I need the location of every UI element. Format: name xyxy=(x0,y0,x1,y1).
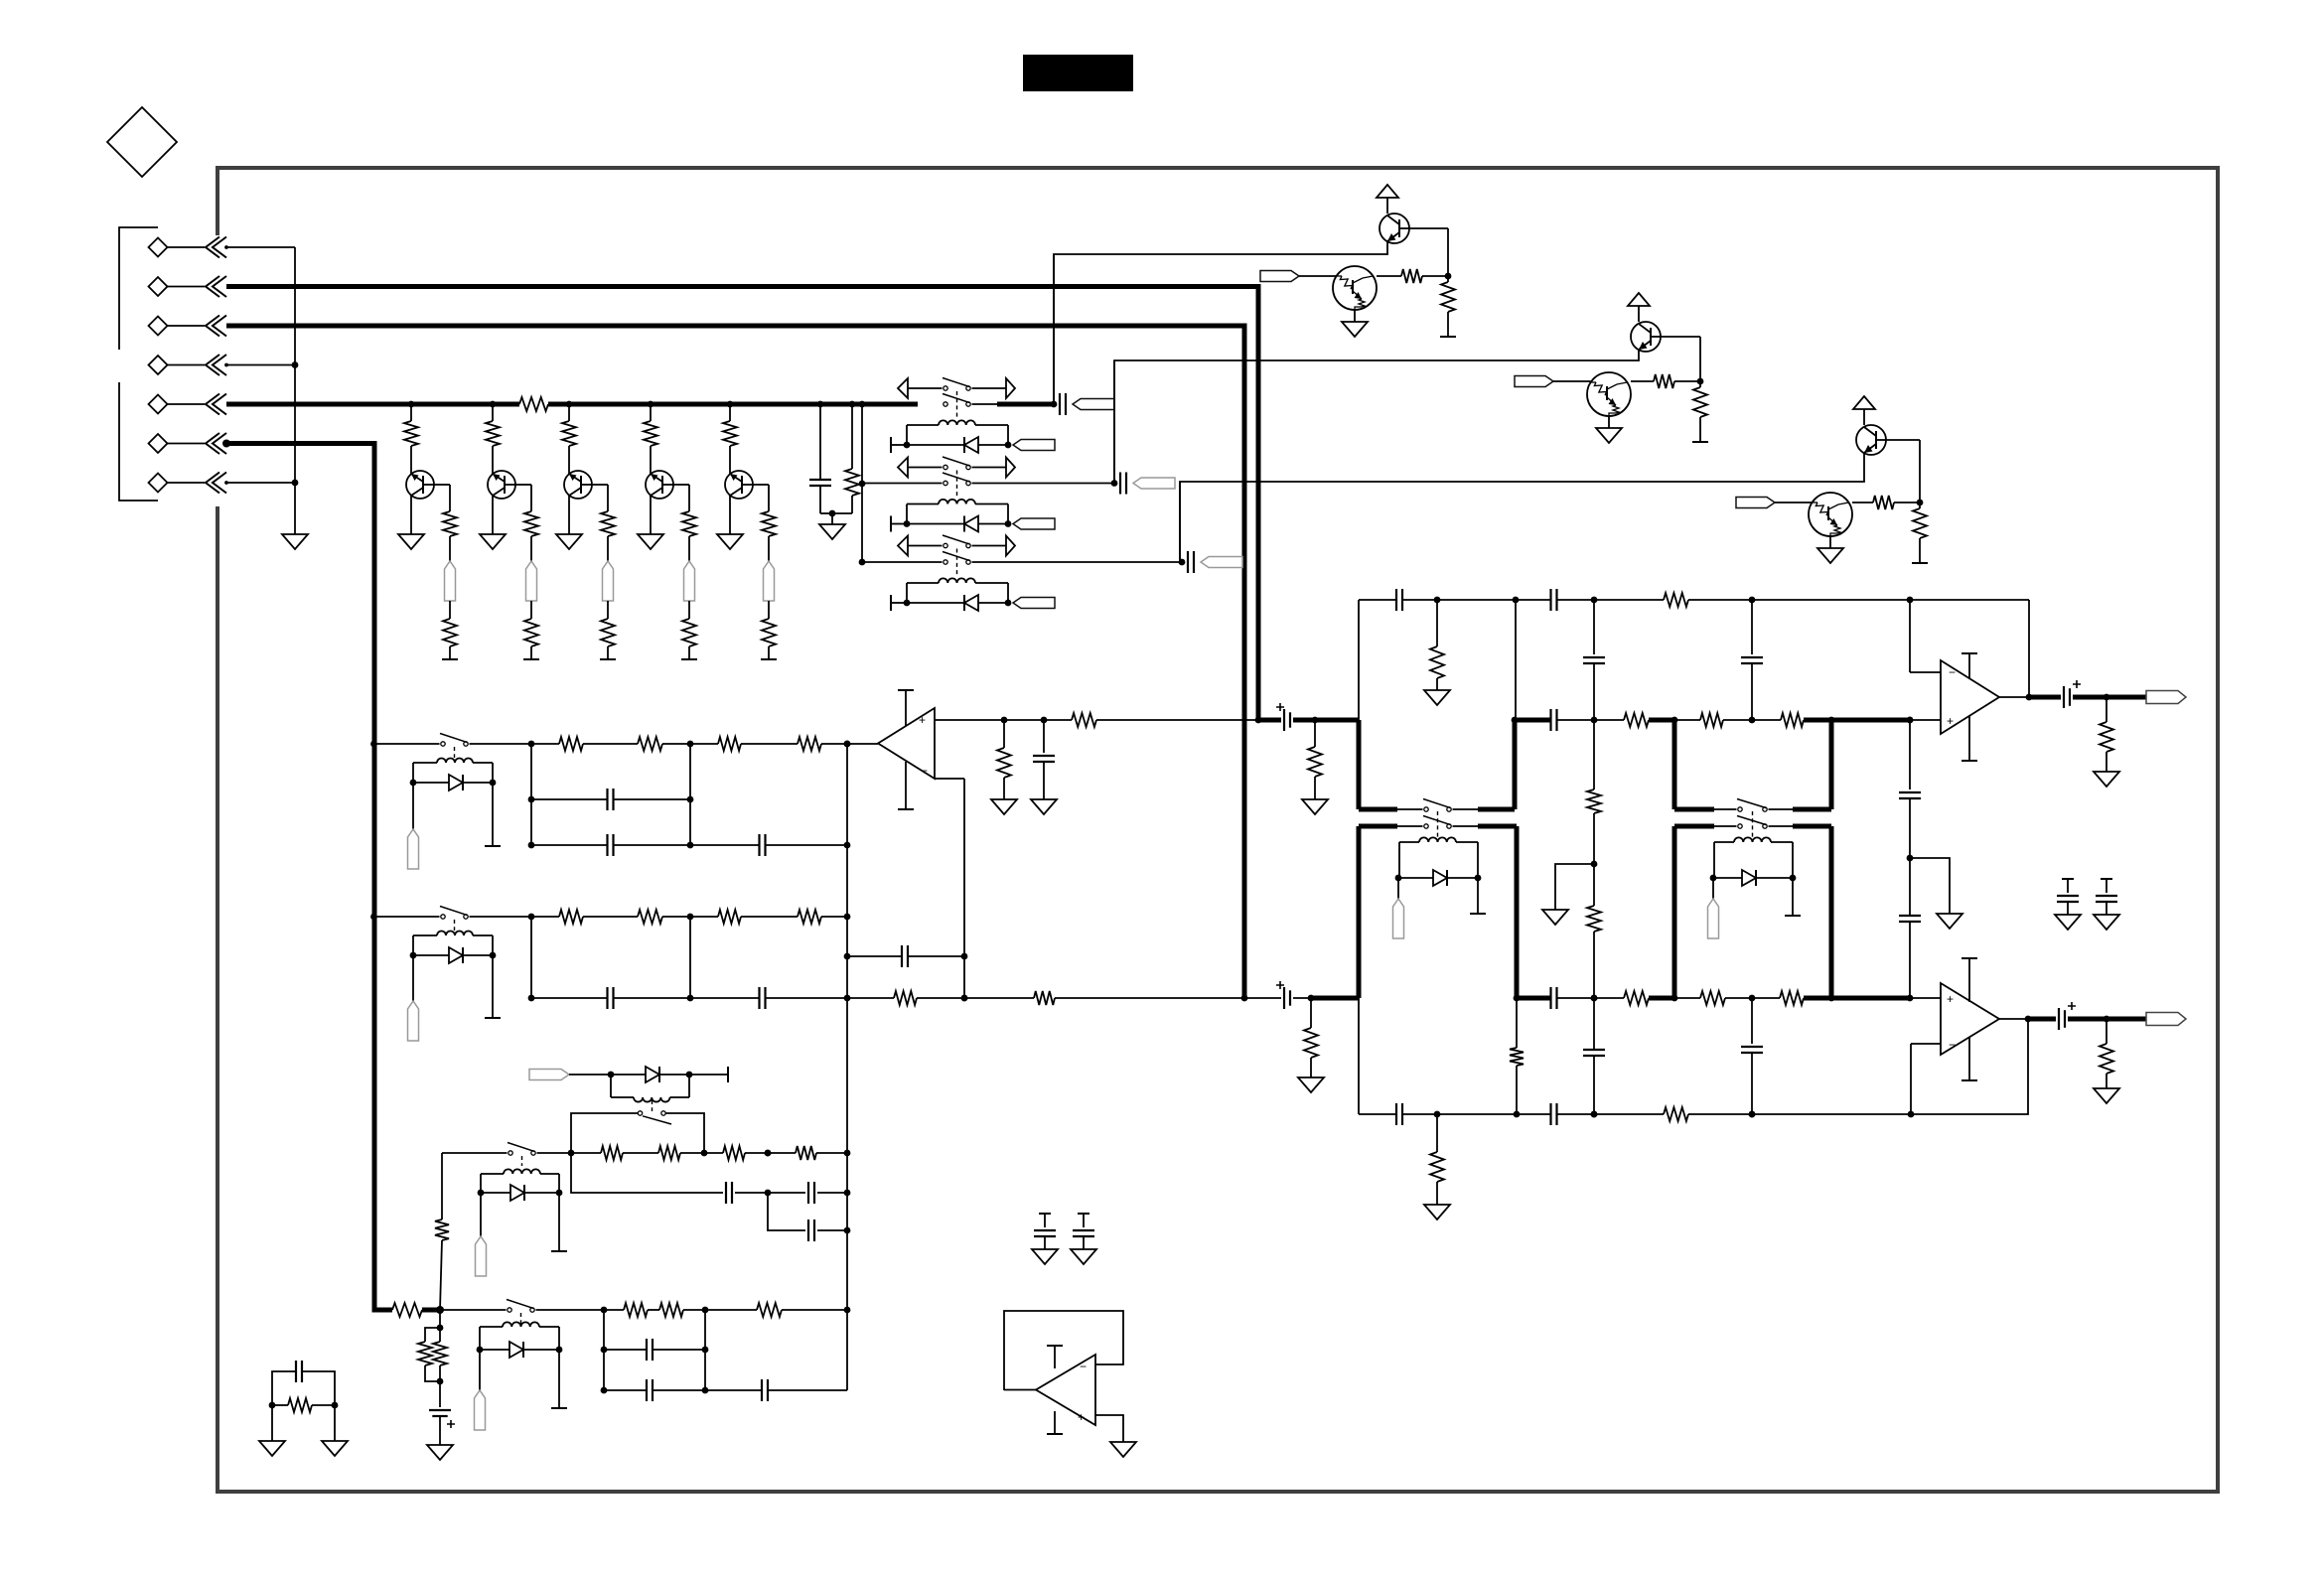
wire v1923 b xyxy=(1909,720,1911,789)
bus row2h (thick) xyxy=(1831,996,1910,1001)
transistor Q8 (PNP) xyxy=(1856,425,1886,455)
cap CL2 xyxy=(807,1182,809,1204)
bus pin2 (thick) xyxy=(226,287,1258,721)
cap C02 xyxy=(1583,656,1605,658)
switch link SW6 xyxy=(1437,811,1439,837)
wire row2c xyxy=(1557,997,1624,999)
bus stub6 (thick) xyxy=(1793,807,1831,812)
cap CL6 rail xyxy=(705,1389,762,1391)
wire U2 - input xyxy=(935,778,964,780)
transistor Q10 (digital) xyxy=(1587,372,1631,416)
ground GND-U5 xyxy=(1110,1442,1136,1457)
terminal T4 xyxy=(681,658,697,660)
wire v1923 e xyxy=(1909,922,1911,998)
wire flag-base cell3 xyxy=(1775,502,1813,503)
net flag NG3 xyxy=(1201,557,1242,568)
ground GND-G4 xyxy=(2094,915,2119,930)
switch SW6a xyxy=(1424,807,1428,811)
wire bus drop x868 xyxy=(861,404,863,562)
wire cell3 drop xyxy=(1179,482,1181,562)
wire U5 + input xyxy=(1095,1415,1123,1442)
wire row2 fb2 xyxy=(917,997,1034,999)
bus row2a (thick) xyxy=(1311,996,1359,1001)
resistor R12a xyxy=(568,404,570,421)
transistor Q3 xyxy=(564,471,592,499)
ground GND cell1 xyxy=(1354,310,1356,322)
resistor R23 xyxy=(1780,991,1804,1005)
wire row3 c xyxy=(1557,1113,1664,1115)
resistor R04 xyxy=(1593,864,1595,906)
resistor RL1a xyxy=(601,1146,623,1160)
wire Q5 collector xyxy=(729,496,731,534)
terminal TD9 xyxy=(558,1193,560,1251)
cap C-bus xyxy=(817,401,824,408)
inductor L3 xyxy=(939,578,975,583)
terminal G1 xyxy=(890,437,892,453)
inductor L6 xyxy=(1419,837,1456,842)
bus stub2 (thick) xyxy=(1478,807,1515,812)
wire U4 - input xyxy=(1911,1043,1941,1045)
inductor L4 xyxy=(437,759,473,764)
bus row1c (thick) xyxy=(1649,718,1674,723)
wire L1 stub2 xyxy=(665,1113,704,1153)
resistor R03 xyxy=(1593,720,1595,789)
junction pin7 xyxy=(226,482,295,484)
resistor R13c xyxy=(688,601,690,619)
cap CA1 rail xyxy=(531,798,607,800)
wire L1 rail1 end xyxy=(817,1192,847,1194)
wire to U3+ xyxy=(1910,719,1941,721)
connector pin 7 diamond xyxy=(149,474,168,493)
transistor Q4 xyxy=(646,471,673,499)
wire U5 output xyxy=(1004,1389,1036,1391)
wire G2 diode xyxy=(907,523,964,525)
wire U2 output xyxy=(847,743,878,745)
wire U3 feedback xyxy=(2028,600,2030,697)
switch SW10 xyxy=(508,1308,511,1312)
wire G3 diode xyxy=(907,602,964,604)
resistor R13b xyxy=(682,511,696,536)
wire to U4+ xyxy=(1910,997,1941,999)
cap C04 xyxy=(1899,791,1921,793)
resistor R-bus xyxy=(519,397,548,411)
wire G3 diode2 xyxy=(978,602,1008,604)
wire v1764 d xyxy=(1751,1053,1753,1114)
resistor RL1d xyxy=(796,1146,816,1160)
ground GND-R03 xyxy=(1542,910,1568,925)
terminal TD7 xyxy=(1792,878,1794,916)
resistor R21 xyxy=(1624,991,1649,1005)
cap C01 xyxy=(1395,589,1397,611)
wire L8 diode row xyxy=(569,1074,646,1076)
diode D3 xyxy=(963,595,965,611)
ground GND cell3 xyxy=(1829,536,1831,548)
arrow left G2 xyxy=(898,458,908,478)
wire Q6 collector out xyxy=(1054,241,1387,404)
net flag N5 xyxy=(764,561,775,601)
U5 power stub top xyxy=(1054,1346,1056,1368)
title block (redacted) xyxy=(1023,55,1133,91)
wire L1 left xyxy=(442,1152,508,1154)
cap C-G3 xyxy=(1187,551,1189,573)
wire L2 vert1 xyxy=(603,1310,605,1390)
net flag cell2 xyxy=(1515,376,1553,387)
node bus col1 xyxy=(408,401,415,408)
wire L1 row c xyxy=(745,1152,796,1154)
connector pin 2 diamond xyxy=(149,277,168,296)
wire row0 xyxy=(1358,600,1360,720)
wire Q4 base xyxy=(673,484,689,486)
net flag NG1 xyxy=(1073,399,1114,410)
resistor R11b xyxy=(524,511,538,536)
wire v1764 b xyxy=(1751,663,1753,720)
net flag N4 xyxy=(684,561,695,601)
wire Q7 base-junction xyxy=(1661,336,1700,338)
cap C31 xyxy=(1395,1103,1397,1125)
wire U2 + input row xyxy=(935,719,1072,721)
op-amp U3 xyxy=(1941,660,1999,734)
wire Q8 base-junction xyxy=(1886,439,1920,441)
transistor Q1 xyxy=(406,471,434,499)
net flag ND5 xyxy=(412,955,414,1001)
ground GND cell2 xyxy=(1608,416,1610,428)
wire G3 out xyxy=(972,561,1183,563)
wire SW6a right xyxy=(1453,808,1479,810)
cap CU2 xyxy=(1043,720,1045,753)
node pin2 corner xyxy=(1255,717,1262,724)
wire dtr-collector cell2 xyxy=(1631,380,1654,382)
node blockA in xyxy=(370,741,377,748)
terminal G2 xyxy=(890,516,892,532)
wire v1605 c xyxy=(1593,998,1595,1050)
terminal TD4 xyxy=(492,783,494,846)
net flag N1 xyxy=(445,561,456,601)
resistor RX1 xyxy=(269,1402,276,1409)
pin 2 off-page chevron xyxy=(206,276,219,297)
terminal TD10 xyxy=(558,1350,560,1408)
svg-text:+: + xyxy=(1078,1410,1085,1424)
junction pin4 xyxy=(226,364,295,366)
wire Q1 collector xyxy=(410,496,412,534)
wire L1 rail2 end xyxy=(817,1229,847,1231)
ground GND-L2 xyxy=(427,1445,453,1460)
connector pin 5 diamond xyxy=(149,395,168,414)
wire row2 fb xyxy=(847,997,894,999)
terminal TD6 xyxy=(1477,878,1479,914)
net flag NL8 xyxy=(529,1070,569,1080)
ground GND-O2 xyxy=(2094,1088,2119,1103)
wire L2 row b xyxy=(648,1309,659,1311)
U2 power stub top xyxy=(905,690,907,726)
terminal Tc2 xyxy=(1692,441,1708,443)
transistor Q2 xyxy=(488,471,515,499)
wire cell1 drop xyxy=(1053,254,1055,404)
net flag cell1 xyxy=(1260,271,1299,282)
wire pin1 to vertical xyxy=(226,246,295,248)
wire v1605 d xyxy=(1593,1056,1595,1114)
wire row0 h2 xyxy=(1402,599,1550,601)
net flag G1 xyxy=(1013,440,1055,451)
wire L1 row b xyxy=(623,1152,658,1154)
cap CG1 xyxy=(1039,1213,1051,1215)
wire blockA in xyxy=(374,743,440,745)
pin 2 lead xyxy=(168,286,206,288)
diode D8 xyxy=(646,1067,659,1082)
resistor RL2d xyxy=(425,1328,440,1342)
pol cap CP2 xyxy=(1244,997,1281,999)
resistor Rc1a xyxy=(1401,269,1422,283)
switch SW9 (flipped) xyxy=(638,1111,642,1115)
switch link SW8 xyxy=(521,1156,523,1166)
wire G1 out xyxy=(972,403,998,405)
U5 feedback box xyxy=(1004,1311,1123,1390)
bus stub7 (thick) xyxy=(1674,824,1714,829)
switch link G3 xyxy=(956,549,958,576)
ground GND-C04 xyxy=(1937,914,1962,929)
resistor RP2 xyxy=(1310,998,1312,1028)
inductor L1 xyxy=(939,420,975,425)
resistor R14c xyxy=(768,601,770,619)
transistor Q5 xyxy=(725,471,753,499)
cap CL3 xyxy=(807,1219,809,1241)
arrow right G3 xyxy=(972,545,1007,547)
cap CU2fb xyxy=(847,955,902,957)
cap CL5 rail xyxy=(604,1389,647,1391)
bus row2b (thick) xyxy=(1517,996,1550,1001)
wire gnd elbow xyxy=(1555,864,1594,910)
U2 power stub bottom xyxy=(905,762,907,809)
ground GND-U2a xyxy=(991,799,1017,814)
ground GND-G3 xyxy=(2055,915,2081,930)
resistor R11c xyxy=(530,601,532,619)
bus pin5 right (thick) xyxy=(548,402,918,407)
diode D9 xyxy=(478,1190,485,1197)
wire L2 vert2 xyxy=(704,1310,706,1390)
transistor Q6 (PNP) xyxy=(1380,214,1409,243)
terminal T2 xyxy=(523,658,539,660)
wire v1605 b xyxy=(1593,663,1595,720)
terminal Tc1 xyxy=(1440,336,1456,338)
U4 power stub bottom xyxy=(1968,1038,1970,1080)
resistor RL2a xyxy=(624,1303,648,1317)
bus v1368 lower (thick) xyxy=(1357,826,1362,998)
switch link SW5 xyxy=(454,920,456,931)
terminal TL8 xyxy=(727,1067,729,1082)
resistor RO1 xyxy=(2106,697,2107,722)
switch SW3a xyxy=(944,543,947,547)
resistor R31 xyxy=(1436,1114,1438,1152)
resistor R14b xyxy=(762,511,776,536)
U3 power stub top xyxy=(1968,653,1970,679)
svg-text:−: − xyxy=(1949,1038,1956,1052)
resistor R14a xyxy=(729,404,731,421)
switch SW1a xyxy=(944,386,947,390)
ground GND-row0 xyxy=(1424,690,1450,705)
pin 4 off-page chevron xyxy=(206,355,219,375)
resistor RF1 xyxy=(894,991,917,1005)
net flag ND4 xyxy=(412,783,414,829)
bus pin3 (thick) xyxy=(226,326,1244,998)
switch SW7a xyxy=(1738,807,1742,811)
transistor Q9 (digital) xyxy=(1333,266,1377,310)
resistor RB4 xyxy=(798,910,821,924)
wire row0 h3 xyxy=(1688,599,2029,601)
net flag G3 xyxy=(1013,598,1055,609)
wire G2 left xyxy=(862,483,943,485)
power arrow V3 xyxy=(1853,396,1875,409)
pin 5 off-page chevron xyxy=(206,394,219,415)
inductor L8 (inverted) xyxy=(634,1097,670,1102)
wire v1527 res xyxy=(1516,998,1518,1048)
cap C21 xyxy=(1549,987,1551,1009)
resistor RP1 xyxy=(1314,720,1316,747)
bus stub5 (thick) xyxy=(1674,807,1714,812)
arrow left G3 xyxy=(898,536,908,556)
cap CB1 rail xyxy=(531,997,607,999)
cap CG2 xyxy=(1078,1213,1089,1215)
op-amp U2 xyxy=(878,708,935,779)
resistor RL2e xyxy=(433,1342,447,1365)
resistor RA4 xyxy=(798,737,821,751)
bus v1527 lower (thick) xyxy=(1515,826,1520,998)
node L2 in xyxy=(436,1306,444,1314)
resistor RF2 xyxy=(1034,991,1055,1005)
ground GND Q3 xyxy=(556,534,582,549)
pol cap CP5 xyxy=(439,1381,441,1407)
wire L1 rail1 right xyxy=(735,1192,805,1194)
bus stub8 (thick) xyxy=(1769,825,1794,827)
wire gnd elbow2 xyxy=(1910,858,1950,914)
ground GND Q1 xyxy=(398,534,424,549)
wire flag-base cell1 xyxy=(1299,275,1337,277)
resistor R11 xyxy=(1624,713,1649,727)
pin 1 lead xyxy=(168,246,206,248)
wire blockA vert2 xyxy=(689,744,691,845)
wire blockB row xyxy=(470,916,560,918)
cap CG4 xyxy=(2101,878,2112,880)
wire G3 left xyxy=(862,561,943,563)
cap C01b xyxy=(1549,589,1551,611)
wire v1764 c xyxy=(1751,998,1753,1044)
wire L1 stub1 xyxy=(571,1113,638,1153)
switch SW5 xyxy=(441,915,445,919)
wire v1923 d xyxy=(1909,858,1911,916)
net flag OUT1 xyxy=(2146,691,2186,704)
wire RA1-RA2 xyxy=(583,743,638,745)
resistor R12 xyxy=(1700,713,1723,727)
resistor R10c xyxy=(449,601,451,619)
resistor RB1 xyxy=(559,910,583,924)
wire Q8 collector out xyxy=(1180,453,1864,562)
resistor RA3 xyxy=(690,743,718,745)
terminal T5 xyxy=(761,658,777,660)
resistor RU2b xyxy=(1003,720,1005,748)
pin 7 off-page chevron xyxy=(206,473,219,494)
resistor R10b xyxy=(443,511,457,536)
switch SW3b xyxy=(944,560,947,564)
wire net-A vertical x853 xyxy=(846,744,848,1390)
node pin3 corner xyxy=(1241,995,1248,1002)
bus row1b (thick) xyxy=(1515,718,1550,723)
wire Q6 base-junction xyxy=(1409,227,1448,229)
bus stub3 (thick) xyxy=(1359,824,1397,829)
ground GND-X1 xyxy=(271,1405,273,1441)
diode D4 xyxy=(413,782,449,784)
wire RB3-RB4 xyxy=(741,916,798,918)
resistor RO2 xyxy=(2106,1019,2107,1044)
bus v1686 upper (thick) xyxy=(1672,720,1677,809)
resistor RA1 xyxy=(559,737,583,751)
resistor Rc3b xyxy=(1919,502,1921,508)
wire U3 - input xyxy=(1910,671,1941,673)
diode D10 xyxy=(477,1347,484,1354)
wire blockB vert1 xyxy=(530,917,532,998)
bus row1e (thick) xyxy=(1831,718,1910,723)
wire row1 mid xyxy=(1674,719,1700,721)
cap C03 xyxy=(1741,656,1763,658)
wire L1 rail2 xyxy=(768,1193,805,1230)
wire v1526 xyxy=(1515,600,1517,720)
pol cap CP3 xyxy=(2029,695,2061,700)
svg-text:+: + xyxy=(1947,714,1954,728)
switch SW1b xyxy=(944,402,947,406)
wire row3 d xyxy=(1688,1113,1911,1115)
switch SW8 xyxy=(508,1151,512,1155)
bus pin5 left (thick) xyxy=(226,402,519,407)
wire row2 fb3 xyxy=(1055,997,1244,999)
bus v1844 upper (thick) xyxy=(1829,720,1834,809)
terminal T3 xyxy=(600,658,616,660)
resistor R22 xyxy=(1700,991,1725,1005)
wire cell2 drop xyxy=(1113,360,1115,484)
ground GND-U2b xyxy=(1031,799,1057,814)
pol cap CP4 xyxy=(2028,1017,2056,1022)
bus v1686 lower (thick) xyxy=(1672,826,1677,998)
node bus col5 xyxy=(727,401,734,408)
wire v1764 a xyxy=(1751,600,1753,654)
diode D5 xyxy=(413,954,449,956)
inductor L7 xyxy=(1734,837,1771,842)
net flag ND6 xyxy=(1397,878,1399,899)
op-amp U5 xyxy=(1036,1355,1095,1425)
cap C-G1 xyxy=(1059,393,1061,415)
resistor RL1c xyxy=(704,1152,723,1154)
net flag OUT2 xyxy=(2146,1013,2186,1026)
net flag N3 xyxy=(603,561,614,601)
inductor L5 xyxy=(437,932,473,936)
net flag cell3 xyxy=(1736,498,1775,508)
wire Q3 base xyxy=(592,484,608,486)
bus pin6 (thick) xyxy=(226,444,392,1311)
cap CG3 xyxy=(2062,878,2074,880)
resistor R32 xyxy=(1664,1107,1688,1121)
bus v1844 lower (thick) xyxy=(1829,826,1834,998)
resistor RA2 xyxy=(638,737,662,751)
ground GND Q5 xyxy=(717,534,743,549)
ground GND-bus xyxy=(831,513,833,524)
node blockB in xyxy=(370,914,377,921)
diode D2 xyxy=(963,516,965,532)
bus v1525 (thick) xyxy=(1513,720,1518,809)
wire SW7a right xyxy=(1769,808,1794,810)
wire blockB in xyxy=(374,916,440,918)
inductor L9 xyxy=(504,1169,540,1174)
wire U2 + to bus xyxy=(1096,719,1258,721)
resistor Rc2b xyxy=(1699,381,1701,387)
resistor R-bus2 xyxy=(849,401,856,408)
wire dtr-collector cell3 xyxy=(1852,502,1873,503)
wire U3 out xyxy=(1999,696,2029,698)
